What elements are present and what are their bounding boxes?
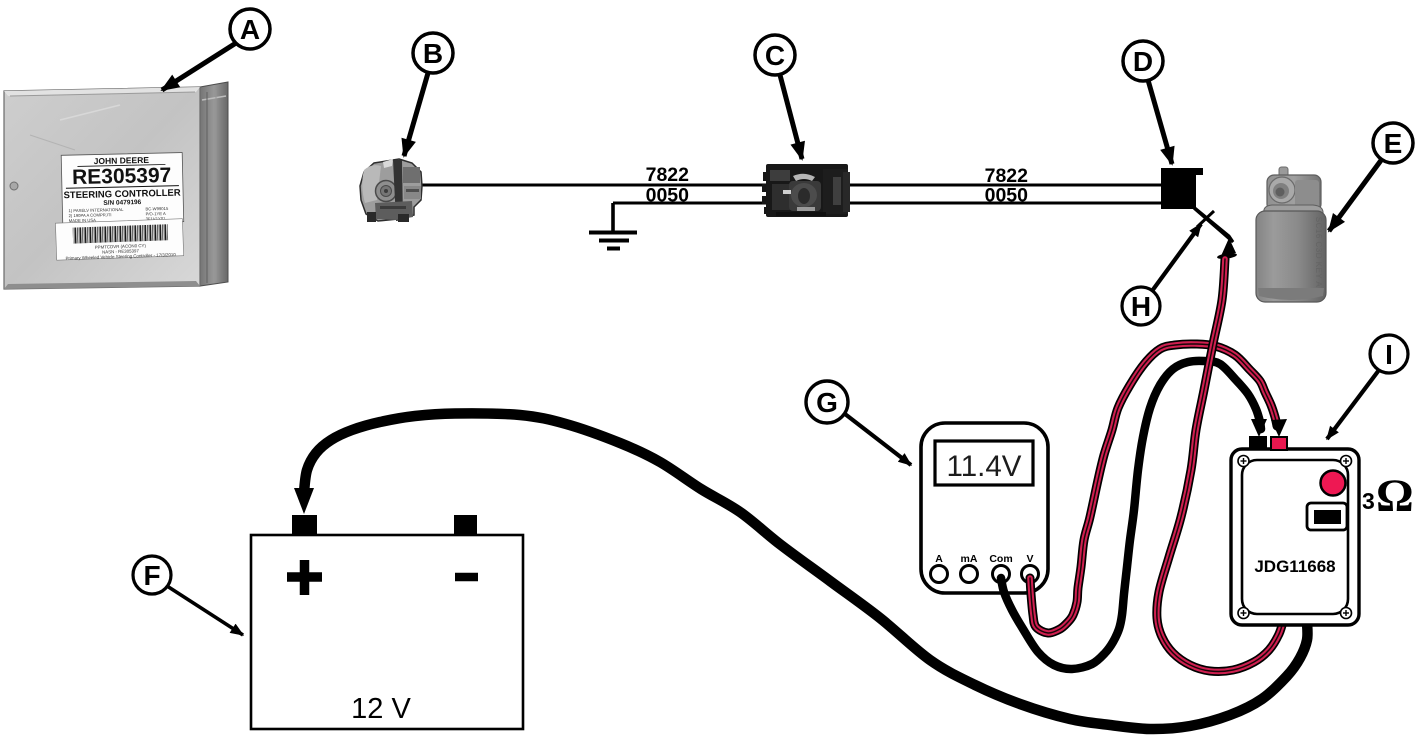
svg-text:V: V bbox=[1026, 553, 1033, 565]
svg-text:G: G bbox=[816, 387, 838, 418]
svg-text:SC16 C3D KEY A: SC16 C3D KEY A bbox=[1314, 217, 1323, 288]
svg-text:Ω: Ω bbox=[1376, 470, 1414, 522]
svg-text:0050: 0050 bbox=[985, 185, 1029, 207]
svg-text:Com: Com bbox=[989, 553, 1012, 565]
svg-text:11.4V: 11.4V bbox=[947, 450, 1022, 483]
svg-text:A: A bbox=[240, 14, 260, 45]
svg-text:3: 3 bbox=[1362, 488, 1375, 514]
svg-text:RE305397: RE305397 bbox=[72, 164, 172, 189]
svg-text:B: B bbox=[423, 38, 443, 69]
svg-text:0050: 0050 bbox=[646, 185, 690, 207]
svg-text:I: I bbox=[1385, 339, 1393, 370]
svg-text:F: F bbox=[143, 560, 160, 591]
svg-text:E: E bbox=[1384, 128, 1403, 159]
svg-text:C: C bbox=[765, 40, 785, 71]
svg-text:mA: mA bbox=[961, 553, 978, 565]
svg-text:S/N 0479196: S/N 0479196 bbox=[103, 199, 141, 207]
svg-text:A: A bbox=[935, 553, 943, 565]
svg-text:JDG11668: JDG11668 bbox=[1254, 557, 1335, 576]
svg-text:H: H bbox=[1131, 291, 1151, 322]
svg-text:12 V: 12 V bbox=[351, 693, 411, 725]
svg-text:D: D bbox=[1133, 46, 1153, 77]
svg-text:7822: 7822 bbox=[646, 164, 690, 186]
